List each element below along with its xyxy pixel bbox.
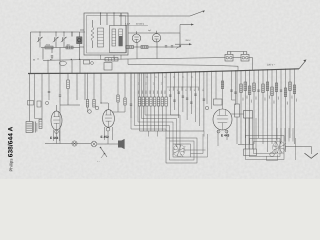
- svg-text:0,1: 0,1: [155, 76, 157, 79]
- svg-text:220 V: 220 V: [186, 39, 192, 42]
- svg-text:0,1μF: 0,1μF: [125, 23, 131, 26]
- svg-text:40: 40: [37, 57, 39, 60]
- svg-text:50 000 Ω: 50 000 Ω: [136, 23, 145, 26]
- svg-text:0,1: 0,1: [164, 76, 166, 79]
- svg-text:0,1: 0,1: [182, 76, 184, 79]
- svg-text:0,1: 0,1: [173, 76, 175, 79]
- svg-text:E 443: E 443: [50, 136, 59, 140]
- svg-text:Philips638/644 A: Philips638/644 A: [8, 126, 15, 171]
- svg-text:E 452: E 452: [101, 135, 110, 139]
- svg-text:E 443: E 443: [221, 133, 230, 137]
- svg-text:220 V ~: 220 V ~: [267, 64, 276, 67]
- svg-text:0,1: 0,1: [146, 76, 148, 79]
- svg-text:0,1: 0,1: [191, 76, 193, 79]
